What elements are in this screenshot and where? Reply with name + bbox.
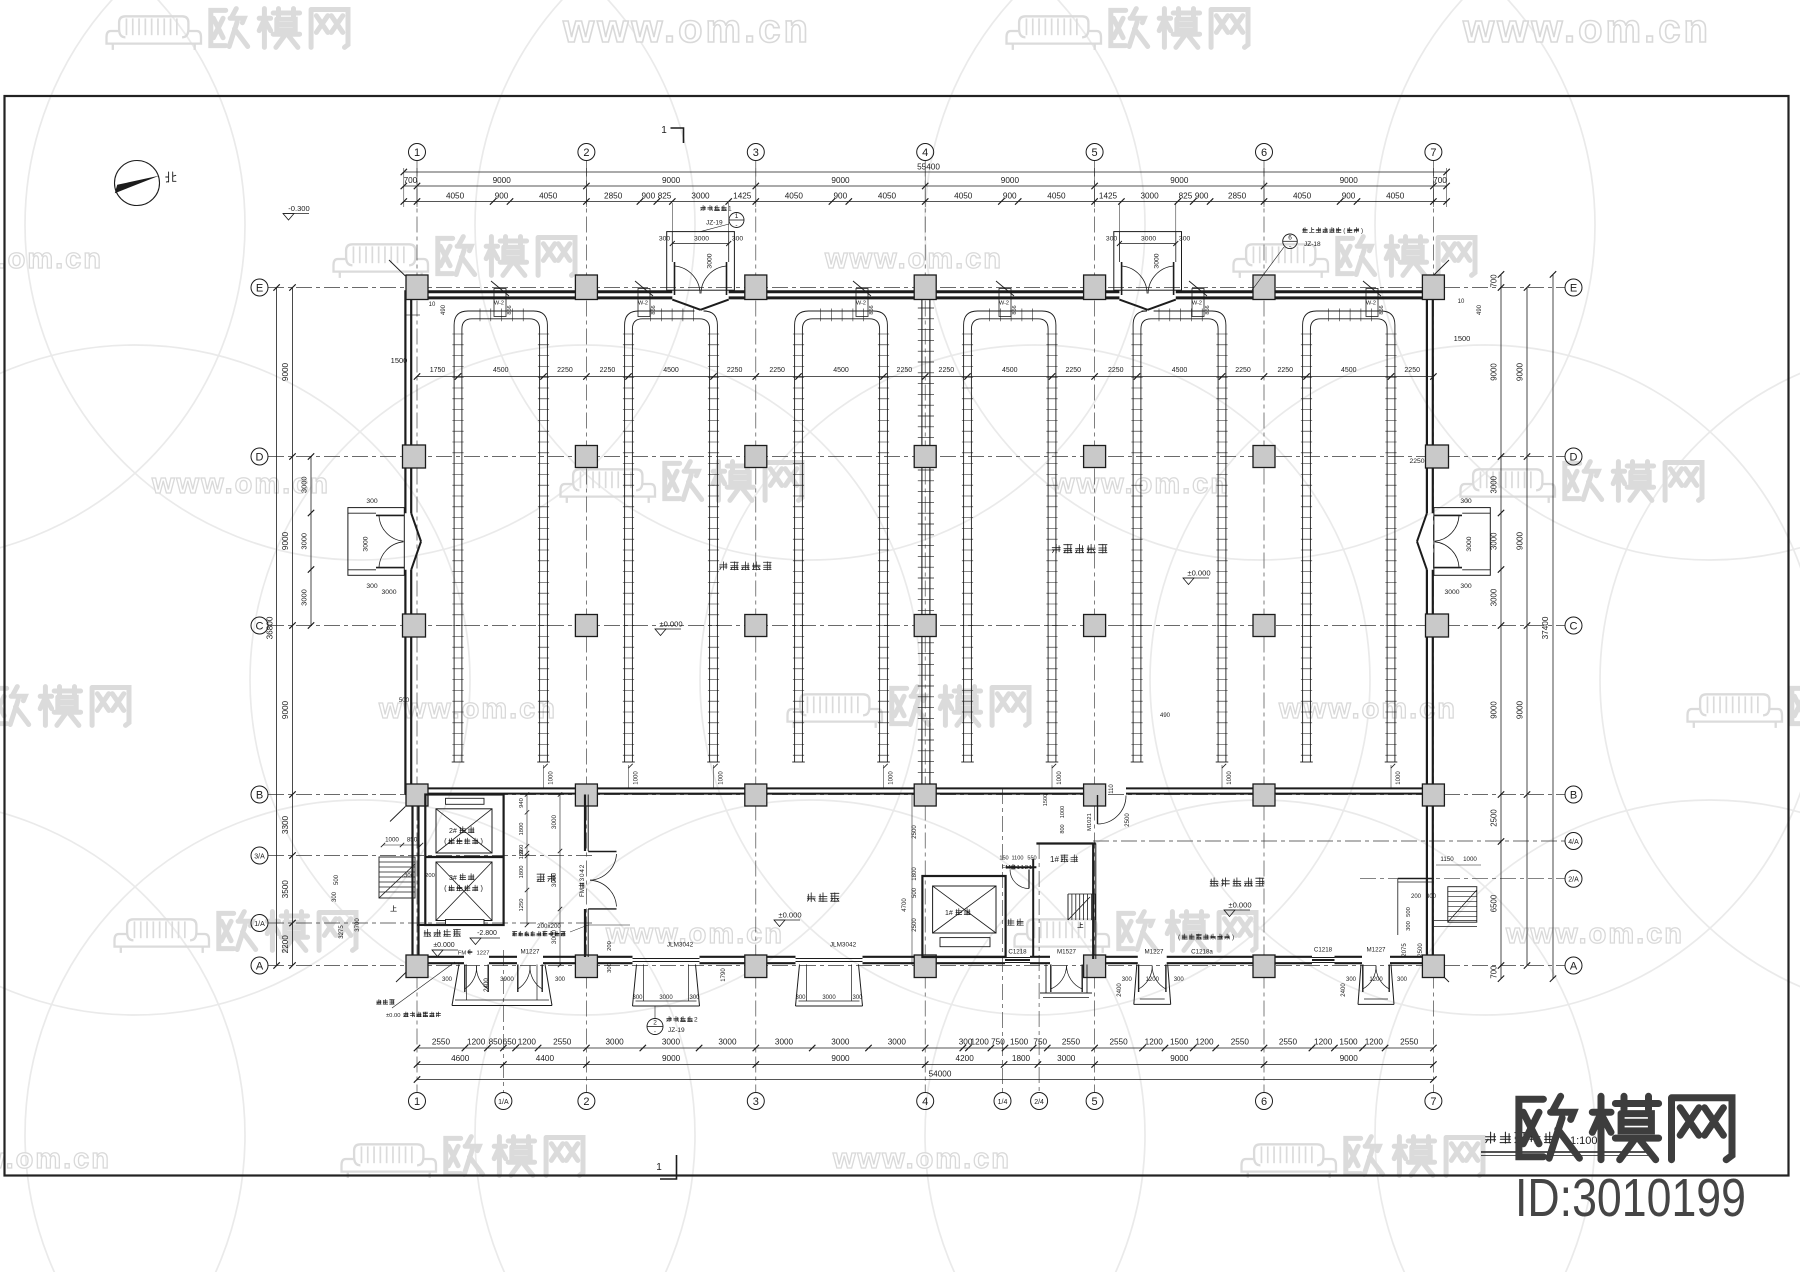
svg-text:3000: 3000 xyxy=(659,995,673,1001)
svg-text:300: 300 xyxy=(366,498,378,505)
svg-text:9000: 9000 xyxy=(1001,176,1020,185)
svg-text:B: B xyxy=(256,789,263,801)
left dimension total 36800 xyxy=(266,284,280,968)
svg-text:856: 856 xyxy=(651,305,657,314)
grid bubbles right xyxy=(1565,279,1582,974)
svg-text:1000: 1000 xyxy=(889,771,895,785)
svg-text:-: - xyxy=(1289,243,1291,250)
svg-text:3000: 3000 xyxy=(1490,532,1499,550)
elevator shafts 2 and 3 xyxy=(425,795,503,926)
svg-text:2550: 2550 xyxy=(1109,1038,1128,1047)
bin wall U1 xyxy=(452,309,550,763)
grid bubbles top 1-7 xyxy=(409,144,1442,161)
top dimension chain 9000s xyxy=(401,176,1450,189)
svg-text:2: 2 xyxy=(653,1020,657,1027)
svg-text:2550: 2550 xyxy=(1279,1038,1298,1047)
svg-text:2/A: 2/A xyxy=(1568,877,1579,884)
level mark -0.300 xyxy=(283,204,310,220)
svg-text:W-2: W-2 xyxy=(638,301,648,307)
svg-text:200: 200 xyxy=(607,941,613,951)
svg-text:1500: 1500 xyxy=(1339,1038,1358,1047)
svg-text:900: 900 xyxy=(495,192,509,201)
svg-text:9000: 9000 xyxy=(1516,531,1525,550)
W-2 vents on wall E xyxy=(491,281,1385,317)
site big logo xyxy=(1519,1096,1732,1159)
svg-text:850: 850 xyxy=(489,1038,503,1047)
svg-text:2250: 2250 xyxy=(727,367,743,374)
svg-text:ID:3010199: ID:3010199 xyxy=(1515,1168,1746,1228)
svg-text:200x200: 200x200 xyxy=(537,923,561,930)
stair 1 room xyxy=(1036,844,1095,960)
svg-text:1: 1 xyxy=(656,1162,662,1173)
svg-text:4700: 4700 xyxy=(902,898,908,912)
top dimension chain fine xyxy=(401,192,1450,205)
svg-text:4050: 4050 xyxy=(1386,192,1405,201)
bin wall U5 xyxy=(1131,309,1229,763)
right dimension chain 9000s xyxy=(1516,284,1531,968)
svg-text:1000: 1000 xyxy=(549,771,555,785)
svg-text:300: 300 xyxy=(1426,894,1437,900)
svg-text:1790: 1790 xyxy=(721,968,727,982)
bin wall U2 xyxy=(622,309,720,763)
svg-text:-: - xyxy=(735,222,737,229)
svg-text:500: 500 xyxy=(1406,907,1412,917)
left dimension chain main xyxy=(281,284,296,968)
svg-text:300: 300 xyxy=(1179,236,1191,243)
svg-text:E: E xyxy=(1570,282,1577,294)
svg-text:1500: 1500 xyxy=(1043,794,1049,806)
windows C1218 in wall A xyxy=(1005,958,1335,963)
site id text xyxy=(1515,1168,1746,1228)
svg-text:1/4: 1/4 xyxy=(998,1099,1008,1106)
svg-text:900: 900 xyxy=(642,192,656,201)
svg-text:9000: 9000 xyxy=(1516,700,1525,719)
elevator 1 shaft xyxy=(922,876,1005,957)
svg-text:A: A xyxy=(1570,960,1578,972)
corner flares xyxy=(389,260,1449,982)
svg-text:4400: 4400 xyxy=(536,1054,555,1063)
svg-text:±0.000: ±0.000 xyxy=(433,942,454,949)
svg-text:54000: 54000 xyxy=(929,1070,952,1079)
svg-text:4200: 4200 xyxy=(956,1054,975,1063)
svg-text:3000: 3000 xyxy=(691,192,710,201)
svg-text:C1218: C1218 xyxy=(1008,949,1027,956)
svg-text:W-2: W-2 xyxy=(856,301,866,307)
svg-text:JLM3042: JLM3042 xyxy=(667,942,694,949)
svg-text:1500: 1500 xyxy=(1170,1038,1189,1047)
svg-text:-: - xyxy=(654,1029,656,1036)
bottom dimension chain mid xyxy=(414,1054,1437,1068)
svg-text:900: 900 xyxy=(834,192,848,201)
svg-text:37400: 37400 xyxy=(1541,616,1550,639)
section mark 1 top xyxy=(661,125,683,143)
svg-text:500: 500 xyxy=(334,874,340,885)
entrance door M-1 at x=700.5 xyxy=(659,232,744,310)
svg-text:55400: 55400 xyxy=(917,163,940,172)
spare parts room labels xyxy=(1178,878,1264,941)
door M1527 with porch xyxy=(1008,949,1092,998)
svg-text:550: 550 xyxy=(1027,856,1036,862)
svg-text:490: 490 xyxy=(441,304,447,315)
svg-text:4500: 4500 xyxy=(833,367,849,374)
svg-text:4050: 4050 xyxy=(878,192,897,201)
drawing title xyxy=(1481,1132,1652,1155)
svg-text:2250: 2250 xyxy=(1404,367,1420,374)
svg-text:1: 1 xyxy=(1029,865,1032,871)
svg-text:5: 5 xyxy=(1092,1096,1098,1108)
svg-text:1000: 1000 xyxy=(1463,856,1477,863)
svg-text:1000: 1000 xyxy=(634,771,640,785)
svg-text:3000: 3000 xyxy=(300,533,309,550)
svg-text:10: 10 xyxy=(1458,299,1465,305)
svg-text:6500: 6500 xyxy=(1490,894,1499,912)
svg-text:M1227: M1227 xyxy=(521,949,540,956)
svg-text:4050: 4050 xyxy=(954,192,973,201)
center dividing wall grid4 xyxy=(918,300,934,787)
svg-text:6: 6 xyxy=(1288,235,1292,242)
grid axis lines horizontal A-E xyxy=(268,288,1565,966)
svg-text:700: 700 xyxy=(1433,176,1447,185)
svg-text:7: 7 xyxy=(1430,1096,1436,1108)
detail circle JZ-19 bottom xyxy=(647,1006,698,1036)
svg-text:3300: 3300 xyxy=(281,815,290,834)
misc small dims top xyxy=(391,299,1483,704)
svg-text:850: 850 xyxy=(407,837,418,844)
svg-text:2400: 2400 xyxy=(483,978,490,992)
svg-text:M: M xyxy=(579,888,586,893)
section mark 1 bottom xyxy=(656,1155,676,1179)
svg-text:1/A: 1/A xyxy=(254,921,265,928)
svg-text:650: 650 xyxy=(503,1038,517,1047)
svg-text:7: 7 xyxy=(1430,147,1436,159)
svg-text:200: 200 xyxy=(425,873,435,879)
svg-text:3000: 3000 xyxy=(363,536,370,551)
svg-text:1200: 1200 xyxy=(1314,1038,1333,1047)
svg-text:500: 500 xyxy=(399,697,410,704)
svg-text:1000: 1000 xyxy=(1060,806,1066,818)
svg-text:700: 700 xyxy=(404,176,418,185)
svg-text:150: 150 xyxy=(519,850,525,860)
svg-text:3275: 3275 xyxy=(339,925,345,939)
svg-text:1100: 1100 xyxy=(1011,856,1023,862)
svg-text:±0.00: ±0.00 xyxy=(386,1013,400,1019)
svg-text:3000: 3000 xyxy=(707,253,714,268)
svg-text:3000: 3000 xyxy=(662,1038,681,1047)
svg-text:D: D xyxy=(1570,451,1578,463)
svg-text:4050: 4050 xyxy=(785,192,804,201)
north arrow xyxy=(115,161,177,206)
svg-text:300: 300 xyxy=(1122,977,1133,983)
doors in wall A left block xyxy=(458,949,542,993)
svg-text:2500: 2500 xyxy=(1418,943,1424,957)
svg-text:856: 856 xyxy=(1012,305,1018,314)
svg-text:750: 750 xyxy=(1033,1038,1047,1047)
svg-text:110: 110 xyxy=(1109,784,1115,794)
svg-text:A: A xyxy=(256,960,264,972)
svg-text:2: 2 xyxy=(1025,865,1028,871)
svg-text:3900: 3900 xyxy=(500,976,514,983)
svg-text:2250: 2250 xyxy=(1409,458,1424,465)
svg-text:3000: 3000 xyxy=(1444,589,1459,596)
grid axis lines vertical 1-7 xyxy=(417,161,1433,1093)
svg-text:9000: 9000 xyxy=(1340,176,1359,185)
svg-text:3000: 3000 xyxy=(1141,236,1156,243)
svg-text:4050: 4050 xyxy=(539,192,558,201)
svg-text:1200: 1200 xyxy=(971,1038,990,1047)
right dimension total 37400 xyxy=(1541,271,1556,982)
svg-text:W-2: W-2 xyxy=(1192,301,1202,307)
sump note bottom-left xyxy=(377,962,455,1019)
svg-text:500: 500 xyxy=(912,887,918,898)
svg-text:1000: 1000 xyxy=(719,771,725,785)
columns row A xyxy=(406,955,1444,978)
svg-text:4500: 4500 xyxy=(1172,367,1188,374)
svg-text:3000: 3000 xyxy=(1140,192,1159,201)
svg-text:1: 1 xyxy=(414,1096,420,1108)
svg-text:3500: 3500 xyxy=(281,880,290,899)
svg-text:300: 300 xyxy=(1397,977,1408,983)
wall E top xyxy=(405,292,1432,298)
exterior stair 2/A right xyxy=(1398,856,1481,957)
electric well xyxy=(999,856,1036,958)
svg-text:9000: 9000 xyxy=(1170,176,1189,185)
svg-text:4: 4 xyxy=(922,147,928,159)
svg-text:856: 856 xyxy=(507,305,513,314)
svg-text:C: C xyxy=(1570,620,1578,632)
columns row E xyxy=(406,275,1444,300)
svg-text:1200: 1200 xyxy=(1195,1038,1214,1047)
svg-text:300: 300 xyxy=(332,891,338,902)
svg-text:3000: 3000 xyxy=(888,1038,907,1047)
svg-text:1200: 1200 xyxy=(1146,977,1160,983)
svg-text:9000: 9000 xyxy=(831,176,850,185)
svg-text:800: 800 xyxy=(1060,824,1066,833)
svg-text:9000: 9000 xyxy=(281,362,290,381)
alarm valve room xyxy=(417,925,504,957)
svg-text:B: B xyxy=(1570,789,1577,801)
svg-text:3/A: 3/A xyxy=(254,853,265,860)
svg-text:1: 1 xyxy=(414,147,420,159)
svg-text:±0.000: ±0.000 xyxy=(1187,569,1210,578)
svg-text:3000: 3000 xyxy=(1057,1054,1076,1063)
svg-text:JZ-19: JZ-19 xyxy=(706,220,723,227)
svg-text:1: 1 xyxy=(735,213,739,220)
svg-text:300: 300 xyxy=(1460,498,1472,505)
svg-text:±0.000: ±0.000 xyxy=(659,620,682,629)
svg-text:9000: 9000 xyxy=(281,700,290,719)
svg-text:1: 1 xyxy=(1017,865,1020,871)
svg-text:M1227: M1227 xyxy=(1367,947,1386,954)
svg-text:300: 300 xyxy=(732,236,744,243)
svg-text:6: 6 xyxy=(1261,147,1267,159)
svg-text:9000: 9000 xyxy=(1490,363,1499,381)
svg-text:1#: 1# xyxy=(1050,855,1059,864)
svg-text:3000: 3000 xyxy=(300,589,309,606)
svg-text:2250: 2250 xyxy=(897,367,913,374)
svg-text:M1227: M1227 xyxy=(1145,949,1164,956)
svg-text:4500: 4500 xyxy=(493,367,509,374)
svg-text:700: 700 xyxy=(1490,274,1499,288)
svg-text:900: 900 xyxy=(1195,192,1209,201)
svg-text:1425: 1425 xyxy=(1099,192,1118,201)
svg-text:300: 300 xyxy=(852,995,863,1001)
svg-text:2250: 2250 xyxy=(557,367,573,374)
svg-text:3000: 3000 xyxy=(551,872,558,887)
svg-text:300: 300 xyxy=(1406,921,1412,931)
svg-text:3000: 3000 xyxy=(775,1038,794,1047)
svg-text:): ) xyxy=(1232,934,1234,941)
svg-text:1500: 1500 xyxy=(1454,334,1471,343)
svg-text:2: 2 xyxy=(579,864,586,868)
bin dimension chain 4500/2250 xyxy=(414,367,1437,380)
svg-text:300: 300 xyxy=(659,236,671,243)
svg-text:9000: 9000 xyxy=(1340,1054,1359,1063)
columns row D xyxy=(403,445,1449,468)
svg-text:2250: 2250 xyxy=(600,367,616,374)
svg-text:3000: 3000 xyxy=(381,589,396,596)
warehouse labels xyxy=(720,544,1107,570)
svg-text:900: 900 xyxy=(1003,192,1017,201)
svg-text:1800: 1800 xyxy=(519,866,525,879)
svg-text:3000: 3000 xyxy=(551,814,558,829)
svg-text:300: 300 xyxy=(442,977,453,983)
svg-text:W-2: W-2 xyxy=(494,301,504,307)
front room dims xyxy=(519,792,562,967)
entrance door right wall xyxy=(1417,334,1490,596)
svg-text:JLM3042: JLM3042 xyxy=(830,942,857,949)
columns row B xyxy=(406,784,1444,806)
svg-text:300: 300 xyxy=(1346,977,1357,983)
svg-text:3000: 3000 xyxy=(1490,475,1499,493)
bin wall U4 xyxy=(961,309,1058,763)
svg-text:JZ-19: JZ-19 xyxy=(668,1027,685,1034)
wall left grid1 upper xyxy=(405,290,411,795)
svg-text:4500: 4500 xyxy=(663,367,679,374)
svg-text:C1218a: C1218a xyxy=(1191,949,1213,956)
svg-text:4: 4 xyxy=(922,1096,928,1108)
svg-text:9000: 9000 xyxy=(662,1054,681,1063)
porches JLM3042 xyxy=(632,942,863,1007)
svg-text:2500: 2500 xyxy=(912,825,918,839)
roll door lines JLM3042 in wall A xyxy=(633,959,863,962)
svg-text:4050: 4050 xyxy=(446,192,465,201)
svg-text:36800: 36800 xyxy=(266,616,275,639)
svg-text:10: 10 xyxy=(429,302,436,308)
svg-text:1500: 1500 xyxy=(1010,1038,1029,1047)
top dimension chain total 55400 xyxy=(401,163,1450,176)
svg-text:700: 700 xyxy=(1490,965,1499,979)
svg-text:2550: 2550 xyxy=(553,1038,572,1047)
svg-text:3000: 3000 xyxy=(718,1038,737,1047)
svg-text:3000: 3000 xyxy=(831,1038,850,1047)
svg-text:3700: 3700 xyxy=(355,918,361,932)
svg-text:300: 300 xyxy=(555,977,566,983)
svg-text:2250: 2250 xyxy=(769,367,785,374)
svg-text:C1218: C1218 xyxy=(1314,947,1333,954)
svg-text:2400: 2400 xyxy=(1341,983,1347,997)
svg-text:300: 300 xyxy=(632,995,643,1001)
svg-text:2500: 2500 xyxy=(1125,813,1131,827)
svg-text:3000: 3000 xyxy=(605,1038,624,1047)
svg-text:3000: 3000 xyxy=(300,476,309,493)
svg-text:825: 825 xyxy=(658,192,672,201)
svg-text:9000: 9000 xyxy=(1170,1054,1189,1063)
relaxation room labels xyxy=(513,795,919,982)
svg-text:300: 300 xyxy=(607,963,613,973)
svg-text:JZ-18: JZ-18 xyxy=(1304,241,1321,248)
svg-text:1800: 1800 xyxy=(519,823,525,836)
svg-text:1200: 1200 xyxy=(518,1038,537,1047)
doors M1227 right with porches xyxy=(1117,947,1408,1005)
svg-text:2250: 2250 xyxy=(1277,367,1293,374)
svg-text:2#: 2# xyxy=(449,828,457,835)
wall A bottom with openings xyxy=(411,957,1433,963)
svg-text:490: 490 xyxy=(1160,713,1171,719)
svg-text:2: 2 xyxy=(583,1096,589,1108)
front room walls xyxy=(537,795,617,958)
svg-text:856: 856 xyxy=(1205,305,1211,314)
svg-text:4050: 4050 xyxy=(1047,192,1066,201)
svg-text:300: 300 xyxy=(366,583,378,590)
svg-text:1000: 1000 xyxy=(1396,771,1402,785)
detail circle JZ-18 top right xyxy=(1252,227,1363,290)
svg-text:856: 856 xyxy=(1379,305,1385,314)
svg-text:2500: 2500 xyxy=(1490,809,1499,827)
watermark logos and urls xyxy=(107,9,349,50)
columns row C xyxy=(403,614,1449,637)
entrance door M-1 at x=1147.6 xyxy=(1106,232,1191,310)
svg-text:1000: 1000 xyxy=(385,837,399,844)
svg-text:2075: 2075 xyxy=(1402,943,1408,957)
bottom dimension chain total 54000 xyxy=(414,1070,1437,1083)
svg-text:150: 150 xyxy=(999,856,1008,862)
svg-text:1150: 1150 xyxy=(1440,856,1454,863)
svg-text:300: 300 xyxy=(404,873,414,879)
svg-text:2550: 2550 xyxy=(432,1038,451,1047)
grid bubbles bottom xyxy=(409,1093,1442,1110)
svg-text:9000: 9000 xyxy=(1490,701,1499,719)
bin leg 1000 dims xyxy=(543,713,1402,794)
svg-text:5: 5 xyxy=(1092,147,1098,159)
svg-text:1227: 1227 xyxy=(477,951,490,957)
right dimension chain fine xyxy=(1490,271,1505,982)
svg-text:2200: 2200 xyxy=(281,935,290,954)
elevator labels xyxy=(444,827,483,893)
svg-text:2: 2 xyxy=(583,147,589,159)
svg-text:): ) xyxy=(481,837,483,846)
svg-text:9000: 9000 xyxy=(493,176,512,185)
svg-text:3: 3 xyxy=(753,1096,759,1108)
svg-text:FM: FM xyxy=(458,951,467,957)
svg-text:300: 300 xyxy=(795,995,806,1001)
svg-text:3000: 3000 xyxy=(694,236,709,243)
svg-text:C: C xyxy=(256,620,264,632)
detail circle JZ-19 top xyxy=(701,205,745,231)
svg-text:4600: 4600 xyxy=(451,1054,470,1063)
svg-text:300: 300 xyxy=(1174,977,1185,983)
svg-text:2250: 2250 xyxy=(939,367,955,374)
svg-text:6: 6 xyxy=(1261,1096,1267,1108)
svg-text:4050: 4050 xyxy=(1293,192,1312,201)
svg-text:1200: 1200 xyxy=(1365,1038,1384,1047)
svg-text:2250: 2250 xyxy=(1066,367,1082,374)
svg-text:±0.000: ±0.000 xyxy=(1228,901,1251,910)
svg-text:1425: 1425 xyxy=(733,192,752,201)
svg-text:2: 2 xyxy=(694,1016,698,1023)
svg-text:1000: 1000 xyxy=(1057,771,1063,785)
wall left lower inset xyxy=(413,795,419,965)
svg-text:940: 940 xyxy=(519,798,525,808)
